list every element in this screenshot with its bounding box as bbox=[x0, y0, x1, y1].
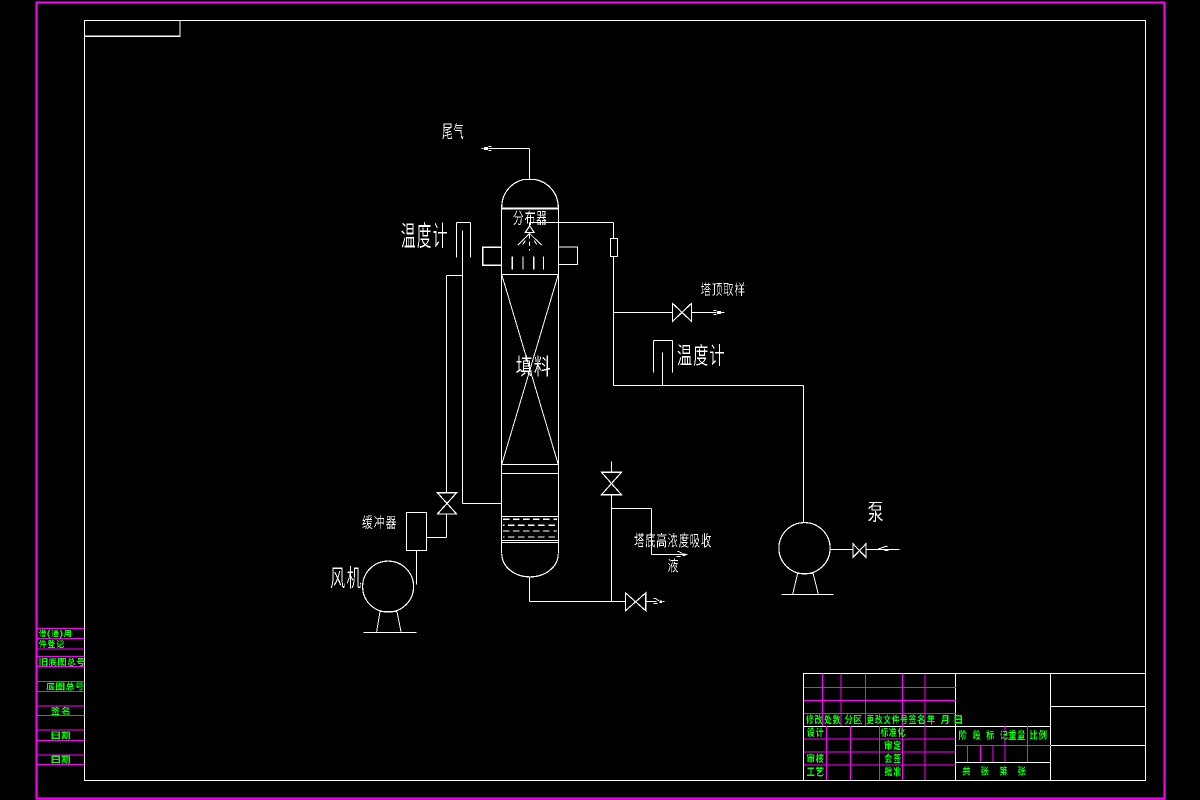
liquid surface line bbox=[502, 516, 559, 518]
gas pipe to buffer bbox=[427, 537, 447, 539]
title cell 比例 bbox=[1030, 730, 1046, 740]
feed line from distributor bbox=[530, 222, 614, 224]
left margin label 日期 upper bbox=[52, 731, 71, 740]
label 尾气 bbox=[443, 123, 464, 139]
sampling outlet with plug bbox=[692, 312, 717, 314]
thermometer T2 well bbox=[654, 341, 673, 373]
fan circle 风机 bbox=[363, 561, 414, 612]
liquid hatch dashes bbox=[503, 519, 557, 537]
title header 修改 bbox=[806, 714, 822, 724]
title cell 重量 bbox=[1009, 730, 1025, 740]
pump discharge horizontal pipe bbox=[614, 385, 804, 387]
valve V5 pump suction bbox=[853, 544, 860, 558]
bottom outlet arrow bbox=[646, 601, 657, 603]
title header 分区 bbox=[845, 714, 862, 724]
packing X cross bbox=[502, 275, 558, 465]
title cell 批准 bbox=[885, 767, 901, 777]
label 缓冲器 bbox=[362, 515, 396, 529]
branch to absorption liquid outlet bbox=[612, 509, 684, 555]
tower top dome bbox=[502, 180, 558, 207]
valve V3 on drain bbox=[602, 472, 622, 483]
tower left nozzle bbox=[483, 247, 502, 265]
label 填料 bbox=[516, 355, 550, 376]
absorption outlet arrow bbox=[678, 551, 680, 553]
left margin label 件登记 bbox=[39, 640, 64, 648]
left margin label 借(通)用 bbox=[39, 630, 71, 638]
title header 更改文件号签名 bbox=[867, 714, 925, 724]
packing bottom line bbox=[502, 464, 559, 466]
title cell 工艺 bbox=[807, 766, 823, 776]
label 温度计 left bbox=[401, 222, 446, 248]
title cell 设计 bbox=[807, 727, 823, 737]
left margin block gridlines bbox=[37, 629, 85, 765]
title block outer white box bbox=[804, 674, 1146, 781]
title header 年 月 日 bbox=[927, 715, 962, 725]
drain stub above valve bbox=[611, 462, 613, 473]
valve V4 bottom outlet bbox=[626, 593, 636, 611]
title header 处数 bbox=[824, 714, 840, 724]
tail gas plug terminator bbox=[482, 148, 484, 150]
tower bottom outlet pipe bbox=[529, 577, 531, 602]
pump suction pipe left segment bbox=[831, 549, 853, 551]
feed downcomer upper bbox=[613, 223, 615, 239]
pump circle 泵 bbox=[779, 523, 830, 574]
liquid bottom double line bbox=[502, 540, 559, 542]
drain pipe below valve bbox=[611, 495, 613, 602]
packing support line bbox=[502, 473, 559, 475]
gas riser pipe bbox=[446, 276, 448, 493]
gas pipe top corner bbox=[447, 275, 463, 277]
thermometer T2 dip pipe bbox=[662, 353, 664, 386]
buffer to fan pipe bbox=[416, 551, 418, 585]
sampling branch pipe bbox=[614, 312, 673, 314]
top-left frame tab bbox=[85, 21, 181, 37]
left margin label 底图总号 bbox=[46, 682, 83, 690]
label 塔底高浓度吸收 bbox=[635, 533, 711, 548]
left margin label 旧底图总号 bbox=[39, 658, 84, 666]
pump riser pipe bbox=[803, 386, 805, 523]
title block magenta grid bbox=[804, 673, 1051, 780]
tower shell walls bbox=[501, 205, 503, 554]
valve V1 on gas riser bbox=[437, 493, 456, 504]
left margin label 日期 lower bbox=[52, 755, 71, 764]
title cell 审定 bbox=[885, 740, 901, 750]
left margin label 签名 bbox=[51, 707, 69, 715]
fan pedestal bbox=[364, 611, 417, 632]
pump pedestal bbox=[782, 574, 834, 595]
tail gas pipe bbox=[489, 148, 530, 150]
distributor teeth bbox=[512, 257, 543, 270]
tower bottom dished head bbox=[502, 554, 558, 577]
suction flow arrow bbox=[878, 546, 887, 549]
label 温度计 right bbox=[678, 344, 724, 366]
title cell 阶段标记 bbox=[959, 730, 1007, 740]
title cell 标准化 bbox=[881, 727, 905, 737]
tower dome base line bbox=[502, 208, 559, 210]
tower right nozzle bbox=[558, 247, 577, 265]
title cell 共 张 第 张 bbox=[963, 766, 1026, 775]
label 液 bbox=[668, 558, 678, 572]
feed downcomer lower bbox=[613, 257, 615, 386]
label 分布器 bbox=[513, 210, 546, 225]
gas pipe below valve bbox=[446, 515, 448, 538]
title cell 审核 bbox=[807, 753, 823, 763]
distributor riser and spray nozzle bbox=[518, 223, 542, 251]
rotameter on feed line bbox=[611, 239, 618, 257]
pump suction pipe right segment bbox=[867, 549, 900, 551]
label 风机 bbox=[331, 566, 361, 588]
pipe from T1 dip to tower bbox=[463, 503, 502, 505]
valve V2 塔顶取样 bbox=[672, 303, 682, 321]
label 塔顶取样 bbox=[701, 283, 745, 296]
label 泵 bbox=[868, 502, 883, 522]
thermometer T1 well bbox=[457, 223, 471, 258]
title cell 会签 bbox=[885, 753, 901, 763]
tower distributor section bottom line bbox=[502, 274, 559, 276]
buffer vessel 缓冲器 bbox=[407, 513, 427, 551]
thermometer T1 dip pipe bbox=[462, 231, 464, 504]
